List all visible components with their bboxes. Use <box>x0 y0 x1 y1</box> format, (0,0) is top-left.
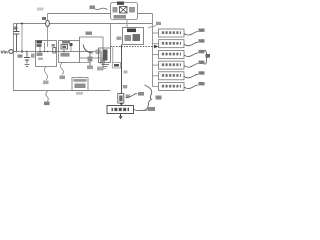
box1 below-wire marks <box>37 53 43 56</box>
label 305 <box>199 71 205 74</box>
ferrite bead L4 <box>46 20 50 26</box>
arrow into motor box <box>119 103 123 106</box>
right edge component blob <box>100 59 105 64</box>
load box 2 <box>159 40 185 48</box>
bus arrowhead <box>154 45 158 49</box>
box2 top label <box>62 41 70 44</box>
fuse body <box>118 94 124 104</box>
wire top rail <box>48 13 153 15</box>
label 201 <box>156 22 161 25</box>
branch cap body <box>88 57 93 62</box>
control outside label <box>117 37 122 40</box>
label 100 faint <box>37 8 44 11</box>
rectifier module box2 <box>59 41 80 63</box>
enclosure bottom edge <box>14 90 111 92</box>
load box 6 <box>159 83 185 91</box>
capacitor C2 <box>14 24 20 52</box>
bus stub 6 <box>153 86 159 88</box>
leader below box2 <box>61 63 64 75</box>
load box 5 <box>159 72 185 80</box>
leader below bottom edge <box>46 91 48 101</box>
wire bead vertical <box>47 14 49 48</box>
bus stub 1 <box>153 32 159 34</box>
load box 3 text <box>161 53 182 56</box>
box1 cluster lower <box>37 44 42 47</box>
label 10 <box>44 102 50 106</box>
motor down arrowhead <box>119 116 123 119</box>
capacitor C1 <box>24 52 30 67</box>
box1 right label <box>52 44 56 47</box>
inductor module box3 <box>80 37 104 58</box>
feed wire side label <box>124 71 128 74</box>
box2 component fill <box>62 46 66 48</box>
load box 4 <box>159 61 185 69</box>
label L4 <box>42 17 46 20</box>
IC left marks <box>100 51 102 59</box>
label 304 <box>199 61 205 64</box>
EMI module box (top) <box>111 3 138 20</box>
box1 below-wire marks 2 <box>38 58 43 60</box>
charge port box4 <box>72 78 88 91</box>
control left marks <box>125 35 132 41</box>
input terminal <box>9 50 13 54</box>
load box 6 text <box>161 85 182 88</box>
box2 junction dot <box>63 51 65 53</box>
box1 internal wire b <box>44 43 46 52</box>
IC module box <box>99 48 111 63</box>
junction dot dashed bus <box>121 46 123 48</box>
box4 text <box>74 79 87 82</box>
EMI left marks <box>113 7 118 13</box>
load box 4 text <box>161 63 182 66</box>
EMI right marks <box>129 7 135 13</box>
load box 1 text <box>161 31 182 34</box>
junction dots <box>16 23 28 53</box>
wire second rail / enclosure top <box>14 23 153 25</box>
bus stub 4 <box>153 64 159 66</box>
box2 lower marks <box>61 53 70 57</box>
fuse fill <box>119 96 122 102</box>
label L1 <box>86 32 93 35</box>
box4 marks <box>75 84 86 89</box>
svg-text:Vin: Vin <box>1 49 8 54</box>
main input wire <box>13 51 99 53</box>
motor leader <box>134 110 147 111</box>
wire parallel vertical <box>21 24 23 52</box>
control module box <box>123 28 144 45</box>
motor text <box>112 108 130 111</box>
motor down wire <box>120 114 122 117</box>
distribution bus vertical <box>152 14 154 87</box>
box1 junction dots <box>39 51 48 53</box>
dashed control bus <box>111 46 155 48</box>
connector drop wire <box>112 47 114 63</box>
bus stub 2 <box>153 43 159 45</box>
edge component marks <box>31 54 35 58</box>
leader load 3 <box>184 53 198 57</box>
control transistor blob <box>133 34 141 41</box>
label 40 <box>43 81 49 85</box>
motor box <box>107 106 134 114</box>
box2 component body <box>61 45 68 50</box>
leader load 6 <box>184 85 198 89</box>
branch cap vertical <box>89 52 91 69</box>
label 30 <box>206 54 211 58</box>
leader below box1 <box>44 67 47 81</box>
box1 right component <box>53 48 56 54</box>
EMI bottom row marks <box>114 15 127 19</box>
box1 internal wire a <box>39 47 41 52</box>
box2 dark dot <box>70 43 73 46</box>
label 70 <box>156 96 162 100</box>
leader load 5 <box>184 74 198 78</box>
EMI label above <box>117 2 124 5</box>
box3 right edge extension <box>102 58 104 70</box>
brace 70 <box>145 85 152 111</box>
wire from rail to IC <box>110 24 112 49</box>
label 302 <box>199 39 205 42</box>
label 50 <box>60 76 66 80</box>
lower link wire <box>80 62 91 64</box>
bus stub 5 <box>153 75 159 77</box>
label D4 <box>123 85 128 88</box>
motor feed vertical <box>121 45 123 94</box>
enclosure left edge <box>13 24 15 92</box>
box1 transformer cluster <box>37 41 43 44</box>
box3 right marks <box>96 50 102 55</box>
capacitor C2 label <box>13 27 18 30</box>
label 301 <box>199 29 205 32</box>
leader 201 <box>148 25 157 28</box>
connector label box V01 <box>113 63 121 69</box>
ground under IC <box>102 65 110 69</box>
branch ground marks <box>87 66 93 70</box>
label 303 <box>199 50 205 53</box>
label 306 <box>199 82 205 85</box>
load box 1 <box>159 29 185 37</box>
connector label text <box>114 64 119 67</box>
leader load 2 <box>184 42 198 46</box>
EMI bridge rect <box>120 7 128 14</box>
filter module box1 <box>36 41 57 67</box>
load box 2 text <box>161 42 182 45</box>
load box 3 <box>159 50 185 58</box>
leader load 1 <box>184 32 198 36</box>
label 60 <box>138 92 144 96</box>
box2 internal wire <box>64 46 71 52</box>
brace 30 <box>205 50 208 65</box>
right edge lower marks <box>97 67 103 71</box>
load box 5 text <box>161 74 182 77</box>
fuse leader <box>126 94 137 98</box>
bus stub 3 <box>153 53 159 55</box>
IC text column <box>103 50 108 61</box>
label 80 <box>148 107 156 111</box>
leader load 4 <box>184 64 198 68</box>
control box connector <box>126 20 128 28</box>
capacitor C1 label <box>18 55 23 58</box>
inductor arc <box>83 45 93 54</box>
label 20 <box>90 6 96 10</box>
box4 below label <box>76 92 83 95</box>
control label <box>127 29 136 33</box>
fuse label <box>126 95 131 98</box>
leader left of EMI box <box>95 8 108 10</box>
